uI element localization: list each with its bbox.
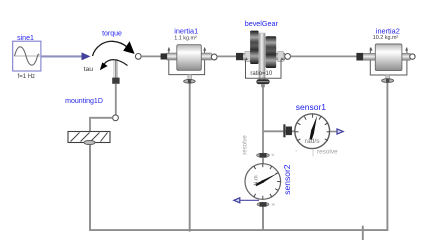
svg-text:1.1 kg.m²: 1.1 kg.m² <box>174 35 197 41</box>
svg-text:inertia2: inertia2 <box>376 27 400 36</box>
svg-text:N.m: N.m <box>253 175 259 186</box>
svg-text:tau: tau <box>84 66 94 73</box>
svg-text:inertia1: inertia1 <box>174 27 198 36</box>
svg-text:sensor1: sensor1 <box>296 102 327 112</box>
svg-text:resolve: resolve <box>317 148 338 155</box>
svg-text:10.2 kg.m²: 10.2 kg.m² <box>373 35 399 41</box>
svg-text:rad/s: rad/s <box>305 138 320 145</box>
svg-text:torque: torque <box>102 30 122 37</box>
svg-text:f=1 Hz: f=1 Hz <box>18 74 36 80</box>
svg-text:mounting1D: mounting1D <box>65 98 103 105</box>
svg-text:sensor2: sensor2 <box>282 164 292 195</box>
svg-text:bevelGear: bevelGear <box>245 19 279 28</box>
svg-text:ratio=10: ratio=10 <box>250 71 273 77</box>
svg-text:resolve: resolve <box>242 135 248 155</box>
